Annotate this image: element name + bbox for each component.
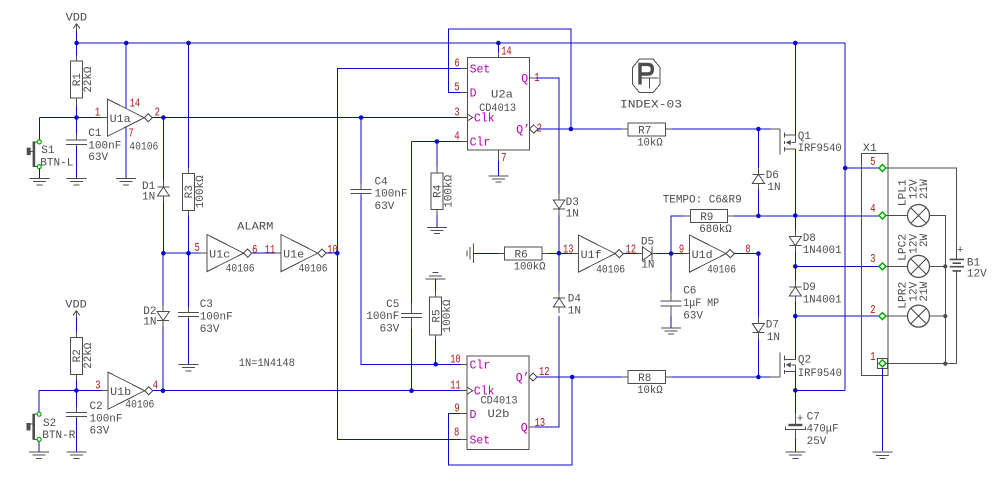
wire C5 to Clk11 — [411, 329, 413, 391]
transistor Q1 (IRF9540) — [780, 129, 842, 155]
pin U1b input — [101, 390, 108, 392]
svg-text:S1: S1 — [41, 145, 55, 157]
junction node 9 — [669, 251, 674, 256]
wire S2 to ground — [38, 441, 40, 452]
wire D8 to pin3 wire — [794, 252, 796, 266]
capacitor C6 — [661, 286, 720, 323]
svg-text:14: 14 — [130, 98, 141, 111]
wire LPR2 to bus — [930, 315, 946, 317]
wire ALARM node to U1c — [163, 252, 200, 254]
diode D5 — [638, 236, 658, 271]
pin U2a 14 — [497, 52, 499, 57]
svg-text:3: 3 — [95, 380, 100, 393]
wire D9 to pin2 wire — [794, 302, 796, 316]
pin C5 bottom — [411, 318, 413, 329]
wire D3 to node 13 — [558, 215, 560, 253]
svg-text:1μF MP: 1μF MP — [683, 298, 719, 310]
svg-text:22kΩ: 22kΩ — [83, 66, 95, 92]
capacitor C4 — [351, 176, 408, 213]
logo PT octagon — [633, 59, 661, 93]
pin C5 top — [411, 302, 413, 313]
junction node 8 — [756, 251, 761, 256]
svg-text:40106: 40106 — [125, 400, 154, 412]
svg-text:IRF9540: IRF9540 — [798, 143, 842, 155]
svg-text:1N: 1N — [641, 259, 654, 271]
junction bus/LPC2 — [943, 264, 947, 268]
junction Q1 drain / pin4 wire — [793, 213, 798, 218]
svg-text:C7: C7 — [807, 411, 820, 423]
svg-text:VDD: VDD — [65, 300, 87, 312]
svg-text:C5: C5 — [386, 299, 399, 311]
svg-text:U2b: U2b — [488, 409, 510, 421]
ground C3 — [179, 365, 199, 371]
junction rail/U1a pin14 — [124, 41, 129, 46]
svg-text:40106: 40106 — [226, 263, 255, 275]
junction rail/U2a pin14 — [496, 41, 501, 46]
pin U2a Q — [530, 77, 536, 79]
svg-text:D3: D3 — [566, 197, 579, 209]
svg-text:CD4013: CD4013 — [479, 103, 516, 115]
pin R3 top — [188, 167, 190, 173]
svg-text:13: 13 — [535, 417, 546, 430]
wire X1 pin3 horizontal — [795, 265, 882, 267]
pin Q1 gate lead — [770, 128, 780, 130]
junction Clr10 / R5 — [433, 362, 438, 367]
svg-text:R9: R9 — [700, 212, 713, 224]
svg-text:5: 5 — [195, 242, 200, 255]
pin U2b Set — [460, 438, 467, 440]
svg-text:C6: C6 — [683, 286, 696, 298]
svg-text:12: 12 — [626, 244, 637, 257]
resistor R2 — [70, 337, 94, 374]
svg-text:100kΩ: 100kΩ — [442, 299, 454, 332]
wire node A to C1 — [76, 118, 78, 139]
wire R7 to Q1 gate — [672, 128, 770, 130]
wire Q2 source node to C7 — [794, 390, 796, 413]
svg-text:U1a: U1a — [110, 114, 131, 126]
svg-text:40106: 40106 — [707, 265, 736, 277]
ground C6 — [661, 328, 681, 334]
wire VDD riser to X1 pin5 — [845, 167, 882, 169]
wire Qbar12 feedback loop to D9pin — [448, 377, 572, 465]
wire ground to R6 — [473, 252, 498, 254]
pin R8 right — [665, 376, 672, 378]
wire X1 pin1 to ground — [882, 368, 884, 451]
svg-text:7: 7 — [501, 152, 506, 165]
pin R9 right — [728, 215, 734, 217]
wire U1a pin14 to rail — [125, 43, 127, 108]
capacitor C7 (polarized) — [785, 411, 838, 448]
svg-text:R7: R7 — [638, 125, 651, 137]
pin C6 top — [670, 291, 672, 301]
wire U1a pin7 to ground — [125, 127, 127, 178]
wire C2 to ground — [75, 419, 77, 452]
wire R5 to Clr10 — [435, 340, 437, 364]
wire Clr4 to C5 — [411, 142, 413, 303]
junction U1a out / D1 — [161, 115, 166, 120]
svg-text:100kΩ: 100kΩ — [195, 175, 207, 208]
wire Clk3 down to C4 — [360, 118, 362, 188]
junction ALARM node / D1-D2 — [161, 251, 166, 256]
svg-text:40106: 40106 — [596, 265, 625, 277]
svg-text:Q’: Q’ — [516, 124, 530, 137]
wire R4 to ground — [436, 215, 438, 227]
svg-text:BTN-R: BTN-R — [42, 430, 75, 442]
inverter U1b — [108, 372, 154, 411]
svg-text:+: + — [957, 245, 964, 257]
diode D1 — [142, 181, 169, 204]
lamp LPR2 — [898, 281, 931, 327]
wire D1 to ALARM node — [162, 202, 164, 253]
svg-text:100kΩ: 100kΩ — [514, 262, 546, 274]
svg-text:TEMPO: C6&R9: TEMPO: C6&R9 — [663, 194, 742, 206]
pin R2 bottom — [75, 374, 77, 380]
ground C2 — [66, 452, 86, 458]
wire R1 to node A — [76, 106, 78, 118]
pin R2 top — [75, 331, 77, 337]
wire node9 up to R9 — [671, 216, 684, 254]
svg-text:12V: 12V — [967, 268, 987, 280]
inverter U1a — [108, 99, 159, 153]
wire node B to C2 — [75, 391, 77, 411]
junction rail/R3 — [186, 41, 191, 46]
wire C6 to ground — [670, 316, 672, 328]
svg-text:470μF: 470μF — [807, 424, 839, 436]
pin U2b Clk — [460, 390, 467, 392]
wire D5 to node 9 — [657, 253, 683, 255]
svg-text:D: D — [470, 88, 477, 101]
junction VDD/R1 — [74, 41, 79, 46]
junction node 13 — [557, 251, 562, 256]
wire R2 to node B — [75, 380, 77, 390]
ground left of R6 — [467, 244, 473, 263]
svg-text:25V: 25V — [807, 436, 827, 448]
diode D9 — [789, 280, 842, 306]
svg-text:13: 13 — [563, 244, 574, 257]
wire Q2 drain up to pin2 — [794, 316, 796, 359]
wire node8/R9 to X1 pin4 — [758, 215, 882, 217]
svg-text:3: 3 — [454, 107, 459, 120]
svg-text:7: 7 — [128, 128, 133, 141]
inverter U1d — [690, 235, 736, 277]
ground U2a pin7 — [488, 176, 508, 182]
svg-text:40106: 40106 — [129, 141, 158, 153]
svg-text:63V: 63V — [683, 310, 703, 322]
wire Q1 source to rail — [794, 43, 796, 135]
wire rail to U2a pin14 — [497, 43, 499, 52]
svg-text:1N4001: 1N4001 — [803, 294, 842, 306]
svg-text:Q: Q — [521, 422, 528, 435]
wire U1c out to U1e in — [252, 252, 275, 254]
pin R4 bottom — [436, 210, 438, 216]
svg-text:5: 5 — [870, 156, 875, 169]
svg-text:1: 1 — [870, 351, 875, 364]
svg-text:U1c: U1c — [209, 249, 230, 261]
junction rail/Q1 source — [793, 41, 798, 46]
wire X1 pin3 to lamp LPC2 — [886, 265, 908, 267]
wire Q13out to D4 — [535, 316, 559, 427]
inverter U1c — [207, 235, 255, 276]
lamp LPC2 — [898, 234, 931, 278]
junction ALARM signal node — [335, 251, 340, 256]
wire U1b output to U2b Clk — [153, 390, 461, 392]
capacitor C1 — [66, 128, 121, 164]
svg-text:9: 9 — [679, 244, 684, 257]
wire C1 to ground — [76, 146, 78, 178]
wire pin3 down to D9 — [794, 266, 796, 280]
wire Q1 drain down — [794, 149, 796, 216]
inverter U1f — [579, 235, 626, 277]
wire VDD rail (top) — [77, 42, 846, 44]
wire rail down right side to X1 pin5 / Q2 source — [844, 43, 846, 390]
junction Clk11 / C5 — [409, 388, 414, 393]
svg-text:D5: D5 — [641, 236, 654, 248]
svg-text:U1f: U1f — [581, 250, 602, 262]
wire node B to S2 — [38, 391, 40, 413]
svg-text:10: 10 — [450, 353, 461, 366]
junction Clr4 / R4 — [435, 139, 440, 144]
svg-text:1N: 1N — [143, 316, 156, 328]
pin U2b Clr — [460, 363, 467, 365]
pin U1a input — [101, 117, 108, 119]
wire D4 to node 13 — [558, 253, 560, 291]
svg-text:BTN-L: BTN-L — [40, 157, 73, 169]
svg-text:D7: D7 — [766, 320, 779, 332]
wire VDD2 stem — [75, 318, 77, 332]
wire ground to R5 — [435, 279, 437, 291]
junction gate1/D6 — [756, 127, 761, 132]
pin R5 bottom — [435, 335, 437, 340]
wire D6 to R9 right node — [757, 189, 759, 216]
ground C7 — [785, 452, 805, 458]
svg-text:IRF9540: IRF9540 — [798, 368, 842, 380]
ground R4 — [427, 227, 447, 233]
wire Clr4 horizontal — [412, 141, 461, 143]
wire C7 to ground — [794, 439, 796, 452]
wire node B horizontal — [39, 390, 101, 392]
svg-text:1N: 1N — [142, 192, 155, 204]
svg-text:U2a: U2a — [491, 90, 513, 102]
svg-text:S2: S2 — [43, 418, 56, 430]
resistor R1 — [71, 61, 95, 98]
capacitor C2 — [66, 401, 123, 438]
svg-text:2W: 2W — [919, 234, 931, 248]
svg-text:R8: R8 — [638, 373, 651, 385]
svg-text:Set: Set — [470, 63, 491, 76]
svg-text:21W: 21W — [919, 179, 931, 199]
wire node A to S1 — [38, 118, 40, 140]
svg-text:C3: C3 — [200, 299, 213, 311]
resistor R8 — [628, 371, 665, 398]
pin R8 left — [622, 376, 629, 378]
resistor R9 — [690, 210, 732, 237]
junction D9/Q2 drain/pin2 — [793, 314, 798, 319]
pin R6 right — [542, 252, 548, 254]
diode D8 — [789, 230, 842, 257]
wire Clr4 down to R4 — [436, 142, 438, 168]
wire node9 down to C6 — [670, 254, 672, 292]
svg-text:CD4013: CD4013 — [481, 396, 518, 408]
svg-text:100nF: 100nF — [90, 413, 123, 425]
flip-flop U2b (CD4013) — [467, 356, 537, 449]
resistor R4 — [431, 173, 455, 209]
resistor R6 — [505, 247, 546, 274]
diode D3 — [553, 193, 579, 220]
wire U2a pin7 to ground — [497, 160, 499, 175]
svg-text:8: 8 — [745, 244, 750, 257]
junction R9/D6/node8 — [756, 214, 761, 219]
svg-text:Q1: Q1 — [798, 131, 812, 143]
ground X1 pin1 — [873, 452, 893, 458]
wire R9 to node8 vertical — [734, 215, 759, 217]
wire U1f out to D5 — [623, 253, 637, 255]
svg-text:Set: Set — [470, 434, 491, 447]
capacitor C5 — [366, 299, 422, 336]
wire U1e out to Set node — [326, 252, 337, 254]
wire LPC2 to bus — [930, 265, 946, 267]
wire X1 pin2 horizontal — [795, 315, 882, 317]
svg-text:100nF: 100nF — [200, 312, 233, 324]
pin U2a Set — [460, 67, 467, 69]
diode D2 — [143, 305, 169, 328]
junction node A (R1/C1) — [74, 115, 79, 120]
svg-text:8: 8 — [454, 427, 459, 440]
svg-text:11: 11 — [265, 244, 276, 257]
svg-text:63V: 63V — [200, 324, 220, 336]
wire Q1 drain to D8 — [794, 216, 796, 231]
junction rail/X1 pin5 — [843, 166, 848, 171]
diode D4 — [553, 292, 581, 318]
svg-text:Clr: Clr — [470, 360, 491, 373]
svg-text:R6: R6 — [514, 250, 527, 262]
pin R5 top — [435, 291, 437, 297]
wire D2 to U1b out — [162, 327, 164, 391]
resistor R7 — [628, 123, 665, 150]
svg-text:D4: D4 — [568, 293, 582, 305]
svg-text:C1: C1 — [88, 128, 102, 140]
pin R3 bottom — [188, 210, 190, 215]
junction Clk3 / C4 — [359, 115, 364, 120]
wire C4 to Clr10 — [361, 196, 460, 365]
junction ALARM node / R3-C3 — [186, 251, 191, 256]
junction bus/battery minus — [943, 362, 947, 366]
svg-text:ALARM: ALARM — [237, 221, 273, 233]
svg-text:1N4001: 1N4001 — [803, 245, 842, 257]
diode D6 — [752, 168, 780, 194]
wire Qbar12 to R8 — [537, 376, 622, 378]
wire U1d out to node8 — [734, 253, 758, 255]
wire Q1out to D3 — [536, 78, 559, 193]
pin R1 top — [76, 55, 78, 61]
svg-text:Q’: Q’ — [516, 372, 530, 385]
pin R1 bottom — [76, 98, 78, 106]
svg-text:40106: 40106 — [299, 263, 328, 275]
ground S2 — [29, 452, 49, 458]
pin U1f input — [572, 252, 579, 254]
wire R3 to ALARM node — [188, 216, 190, 254]
pin 1 of X1 (number + contact) — [870, 351, 886, 367]
svg-text:4: 4 — [870, 203, 875, 216]
svg-text:10kΩ: 10kΩ — [637, 385, 663, 397]
svg-text:63V: 63V — [375, 201, 395, 213]
junction gate2/D7 — [756, 375, 761, 380]
power flag VDD (top left) — [66, 13, 88, 31]
svg-text:1N: 1N — [767, 332, 780, 344]
pin 2 of X1 (number + contact) — [870, 304, 886, 319]
transistor Q2 (IRF9540) — [780, 352, 842, 380]
junction D8/D9/pin3 — [793, 264, 798, 269]
svg-text:1N: 1N — [566, 208, 579, 220]
wire rail to R1 — [76, 43, 78, 55]
wire U1a output to U2a Clk — [152, 117, 460, 119]
wire ALARM to U2a Set6 — [337, 68, 460, 253]
wire ALARM to U2b Set8 — [337, 253, 460, 439]
svg-text:1N: 1N — [568, 306, 581, 318]
wire Qbar2 feedback loop to D5pin — [448, 29, 571, 129]
svg-text:Q: Q — [521, 73, 528, 86]
junction node B (R2/C2) — [74, 388, 79, 393]
svg-text:680kΩ: 680kΩ — [699, 224, 732, 236]
ground above R5 — [426, 273, 446, 279]
pin 4 of X1 (number + contact) — [870, 203, 886, 219]
pin R6 left — [498, 252, 505, 254]
diode D7 — [752, 317, 780, 344]
wire gate1 node down to D6 — [757, 129, 759, 168]
junction U1b out / D2 — [161, 388, 166, 393]
svg-text:6: 6 — [252, 244, 257, 257]
junction bus/LPR2 — [943, 314, 947, 318]
wire D7 to gate2 node — [757, 339, 759, 377]
ground U1a pin7 — [116, 178, 136, 184]
connector X1 — [861, 143, 887, 376]
pin R4 top — [436, 167, 438, 173]
svg-text:VDD: VDD — [66, 13, 88, 25]
capacitor C3 — [178, 299, 233, 336]
svg-text:X1: X1 — [863, 143, 877, 155]
wire X1 pin4 to lamp LPL1 — [886, 215, 908, 217]
svg-text:U1b: U1b — [110, 387, 131, 399]
pin 3 of X1 (number + contact) — [870, 253, 886, 270]
pin U1d input — [683, 253, 689, 255]
svg-text:100nF: 100nF — [88, 140, 121, 152]
pin U2b Q — [529, 426, 535, 428]
svg-text:D9: D9 — [803, 282, 816, 294]
svg-text:63V: 63V — [379, 324, 399, 336]
svg-text:100nF: 100nF — [366, 311, 399, 323]
wire Q2 source to VDD riser — [795, 389, 845, 391]
wire ALARM node down to C3 — [188, 253, 190, 310]
battery B1 — [950, 245, 988, 280]
resistor R5 — [430, 297, 454, 335]
wire R8 to Q2 gate — [672, 376, 770, 378]
svg-text:1N=1N4148: 1N=1N4148 — [239, 358, 295, 370]
pin Q2 gate lead — [770, 376, 780, 378]
svg-text:D6: D6 — [766, 170, 779, 182]
resistor R3 — [183, 173, 207, 210]
wire ALARM node down to D2 — [162, 253, 164, 305]
svg-text:C4: C4 — [375, 176, 389, 188]
svg-text:6: 6 — [454, 57, 459, 70]
svg-text:Q2: Q2 — [798, 355, 811, 367]
wire C3 to ground — [188, 319, 190, 365]
svg-text:10kΩ: 10kΩ — [637, 137, 663, 149]
svg-text:22kΩ: 22kΩ — [83, 342, 95, 368]
pin U2a 7 — [497, 150, 499, 160]
pin U2a D — [460, 92, 467, 94]
wire U1a out down to D1 — [162, 118, 164, 181]
ground S1 — [29, 178, 49, 184]
svg-text:INDEX-03: INDEX-03 — [620, 99, 682, 111]
